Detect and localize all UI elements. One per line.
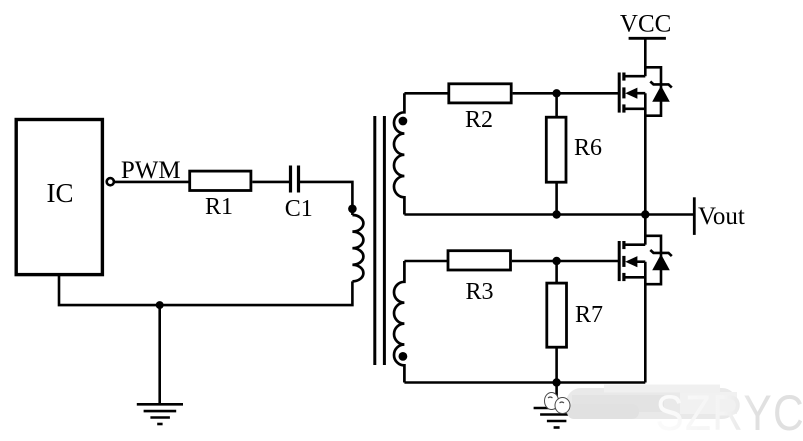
ground right — [534, 408, 580, 428]
wire secondary top to R2 — [404, 92, 449, 95]
resistor R2 — [449, 84, 511, 103]
transistor Q2 — [619, 215, 672, 383]
VCC rail bar — [629, 37, 666, 40]
pin PWM output circle — [107, 178, 114, 185]
wire R2 to Q1 gate — [513, 92, 620, 95]
Q2 channel bars — [622, 241, 625, 281]
svg-text:R6: R6 — [574, 135, 602, 161]
svg-text:R7: R7 — [575, 302, 603, 328]
Q2 drain vertical to Vout line — [644, 215, 647, 245]
junction dot R2 R6 — [552, 89, 560, 97]
wire bottom rail — [404, 381, 645, 384]
Q1 diode triangle — [652, 86, 670, 102]
wire R1 to C1 — [252, 181, 289, 184]
svg-text:SZRYC: SZRYC — [655, 385, 803, 441]
wire PWM pin to R1 — [114, 181, 189, 184]
wire down to right ground — [555, 383, 558, 409]
svg-text:IC: IC — [47, 178, 74, 208]
junction dot Q1 source Vout — [641, 210, 649, 218]
transistor Q1 — [619, 38, 672, 214]
svg-text:R1: R1 — [205, 194, 233, 220]
svg-text:Vout: Vout — [698, 203, 745, 230]
transformer core — [375, 116, 385, 365]
transformer secondary winding bottom — [394, 261, 404, 383]
wire secondary bottom to R3 — [404, 260, 449, 263]
Q2 body line — [630, 260, 645, 263]
Q1 source stub — [624, 108, 645, 111]
junction dot R3 R7 — [552, 257, 560, 265]
svg-text:R2: R2 — [465, 107, 493, 133]
svg-text:C1: C1 — [285, 196, 313, 222]
resistor R1 — [190, 171, 251, 190]
junction dot R6 to Vout line — [552, 210, 560, 218]
Q1 body line — [630, 92, 645, 95]
transformer secondary winding top — [394, 93, 404, 214]
resistor R3 — [448, 251, 511, 270]
Q1 source vertical to Vout — [644, 93, 647, 214]
primary winding phase dot — [348, 205, 357, 214]
svg-text:PWM: PWM — [121, 157, 181, 184]
secondary bottom phase dot — [399, 352, 408, 361]
wire R6 top — [555, 93, 558, 117]
wire Vout line — [404, 213, 694, 216]
resistor R7 — [547, 283, 567, 347]
junction dot ground node — [156, 301, 164, 309]
Q2 diode triangle — [652, 254, 670, 270]
Q1 gate bar — [618, 73, 621, 113]
ground left — [137, 404, 183, 424]
Q2 source vertical to bottom rail — [644, 262, 647, 383]
junction dot bottom rail — [552, 378, 560, 386]
Q1 drain stub — [624, 75, 645, 78]
watermark logo blobs — [545, 393, 571, 414]
Q2 source stub — [624, 276, 645, 279]
svg-text:R3: R3 — [465, 279, 493, 305]
wire primary bottom to IC bottom — [59, 275, 352, 306]
Q1 diode cathode bar — [650, 82, 672, 88]
resistor R6 — [546, 117, 566, 182]
Q2 body diode branch — [645, 236, 661, 284]
transformer T1 primary winding — [352, 215, 363, 281]
Q1 body arrow — [625, 88, 637, 99]
Q2 body arrow — [625, 256, 637, 267]
Q1 drain vertical to VCC — [644, 38, 647, 76]
secondary top phase dot — [399, 117, 408, 126]
capacitor C1 — [291, 166, 299, 193]
wire C1 to transformer primary top — [300, 182, 352, 215]
svg-text:VCC: VCC — [620, 11, 671, 38]
wire R7 top — [555, 261, 558, 283]
wire R3 to Q2 gate — [512, 260, 619, 263]
wire R7 bottom — [555, 347, 558, 382]
Q1 body diode branch — [645, 67, 661, 115]
Q1 channel bars — [622, 73, 625, 113]
op-amp U1 IC box — [16, 120, 102, 275]
Vout terminal bar — [693, 197, 696, 235]
wire R6 bottom — [555, 182, 558, 214]
wire down to ground — [158, 305, 161, 404]
Q2 gate bar — [618, 241, 621, 281]
Q2 diode cathode bar — [650, 250, 672, 256]
Q2 drain stub — [624, 243, 645, 246]
